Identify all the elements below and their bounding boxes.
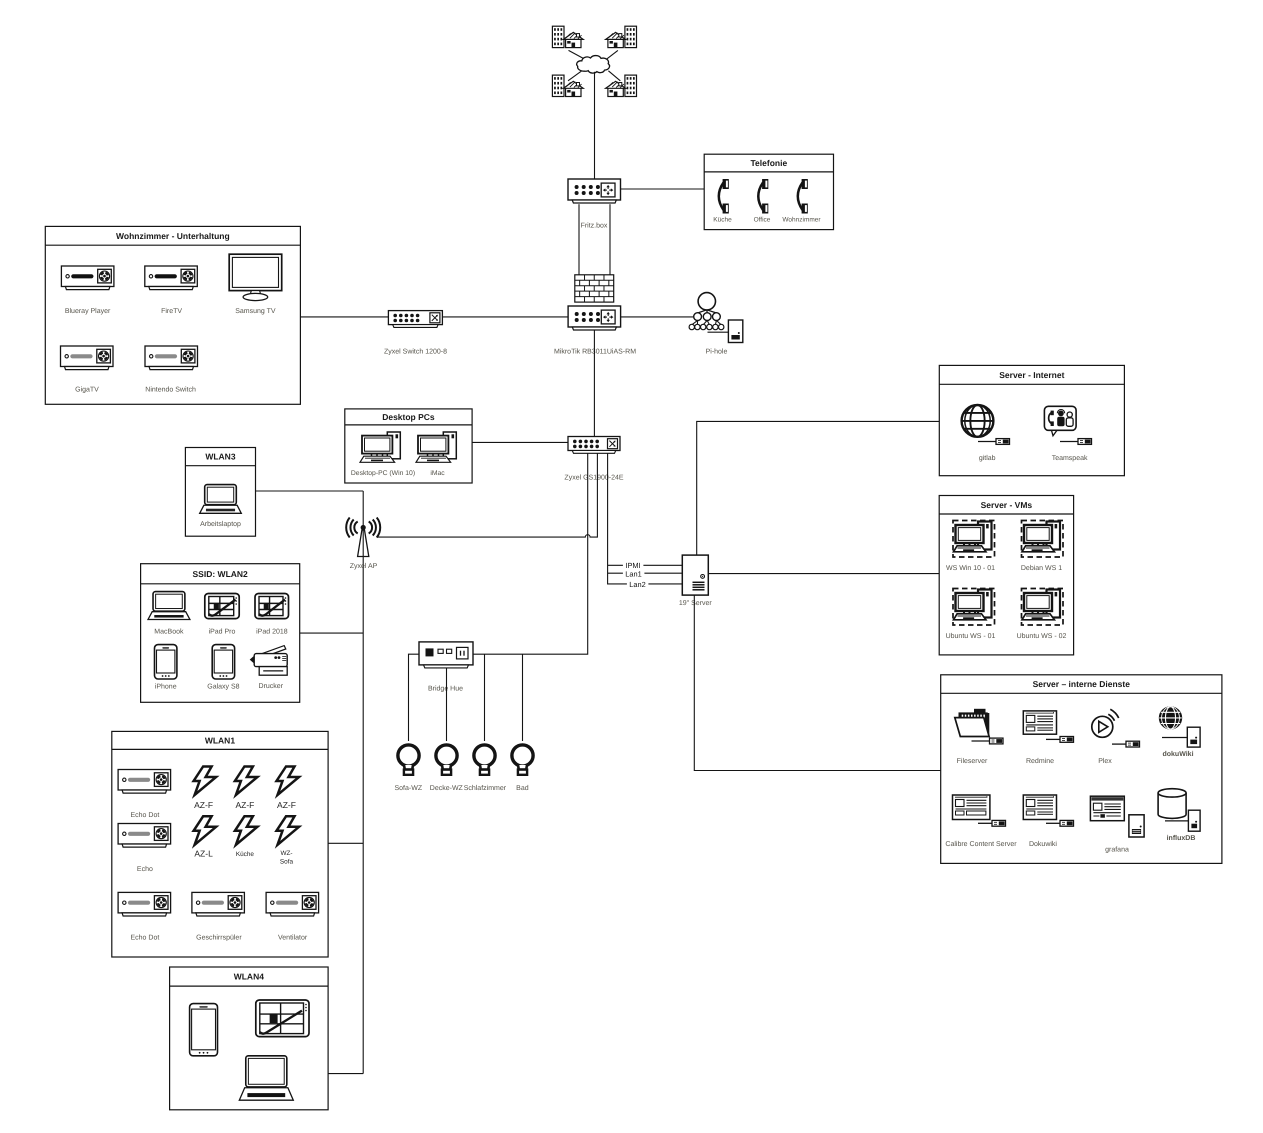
device Echo Dot lower xyxy=(118,892,171,916)
laptop MacBook xyxy=(148,592,190,620)
wire GS1900 to server trunk xyxy=(608,453,683,584)
svg-text:MacBook: MacBook xyxy=(154,628,184,636)
svg-text:Nintendo Switch: Nintendo Switch xyxy=(145,386,196,394)
group box Desktop PCs xyxy=(345,409,472,483)
svg-text:Dokuwiki: Dokuwiki xyxy=(1029,840,1057,848)
wire AP trunk down WLAN boxes xyxy=(362,491,364,1074)
svg-text:Blueray Player: Blueray Player xyxy=(65,307,111,315)
svg-text:Schlafzimmer: Schlafzimmer xyxy=(464,784,507,792)
wire cloud to bottom-right city xyxy=(608,71,620,81)
svg-text:Zyxel Switch 1200-8: Zyxel Switch 1200-8 xyxy=(384,348,447,356)
svg-text:Server - VMs: Server - VMs xyxy=(981,500,1033,510)
device Echo xyxy=(118,824,171,848)
svg-text:Bridge Hue: Bridge Hue xyxy=(428,685,463,693)
wire Desktop PCs to GS1900 xyxy=(472,441,568,443)
server 19 inch xyxy=(682,555,708,595)
tablet iPad 2018 xyxy=(255,594,289,619)
service Teamspeak bubble xyxy=(1044,406,1076,436)
phone Office xyxy=(758,179,768,214)
bulb Decke-WZ xyxy=(436,745,457,775)
group box Server - Internet xyxy=(939,365,1124,475)
svg-text:Office: Office xyxy=(754,217,771,224)
device Pi-hole board xyxy=(728,320,742,343)
svg-text:WLAN3: WLAN3 xyxy=(205,452,235,462)
service gitlab connector xyxy=(978,439,1010,445)
label IPMI xyxy=(623,561,644,570)
smart plug AZ-F 3 xyxy=(277,767,300,796)
svg-text:Telefonie: Telefonie xyxy=(751,158,788,168)
svg-text:Lan2: Lan2 xyxy=(629,580,645,589)
smartphone WLAN4 xyxy=(190,1004,218,1056)
svg-text:AZ-L: AZ-L xyxy=(194,849,213,859)
svg-text:Server - Internet: Server - Internet xyxy=(999,370,1064,380)
wire trunk to WLAN4 xyxy=(328,1073,363,1075)
svg-text:Küche: Küche xyxy=(236,851,255,858)
service Plex xyxy=(1092,709,1119,737)
service gitlab globe xyxy=(962,405,994,437)
svg-text:gitlab: gitlab xyxy=(979,454,996,462)
wire cloud to Fritz.box xyxy=(594,72,596,179)
service Redmine connector xyxy=(1046,737,1074,743)
svg-text:Pi-hole: Pi-hole xyxy=(706,348,728,356)
svg-text:Geschirrspüler: Geschirrspüler xyxy=(196,934,242,942)
wire to Bad bulb xyxy=(522,654,524,741)
svg-text:Galaxy S8: Galaxy S8 xyxy=(207,682,239,690)
svg-text:WLAN1: WLAN1 xyxy=(205,735,235,745)
internet city block top-left xyxy=(552,26,583,47)
computer Desktop-PC (Win 10) xyxy=(360,432,400,462)
smartphone Galaxy S8 xyxy=(212,645,234,679)
computer iMac xyxy=(416,432,456,462)
svg-text:Echo: Echo xyxy=(137,865,153,873)
device Echo Dot upper xyxy=(118,770,171,794)
wire cloud to bottom-left city xyxy=(568,71,582,81)
svg-text:Wohnzimmer - Unterhaltung: Wohnzimmer - Unterhaltung xyxy=(116,231,230,241)
service Dokuwiki page xyxy=(1023,795,1056,820)
svg-text:Plex: Plex xyxy=(1098,757,1112,765)
wire server to Server - interne Dienste xyxy=(694,595,940,770)
wire trunk to WLAN1 xyxy=(328,842,363,844)
label Lan1 xyxy=(623,569,645,578)
group box WLAN1 xyxy=(112,731,328,957)
service Redmine page xyxy=(1023,711,1056,734)
service Teamspeak connector xyxy=(1060,439,1092,445)
device FireTV xyxy=(145,266,198,290)
switch Zyxel GS1900-24E xyxy=(568,437,620,454)
svg-text:Debian WS 1: Debian WS 1 xyxy=(1021,564,1062,572)
svg-text:Redmine: Redmine xyxy=(1026,757,1054,765)
service Fileserver folder xyxy=(955,709,990,737)
svg-text:Ventilator: Ventilator xyxy=(278,934,308,942)
group box Telefonie xyxy=(704,154,833,229)
service Fileserver connector xyxy=(972,738,1004,744)
tablet iPad Pro xyxy=(205,594,239,619)
svg-text:SSID: WLAN2: SSID: WLAN2 xyxy=(193,569,249,579)
svg-text:WLAN4: WLAN4 xyxy=(234,972,264,982)
bulb Sofa-WZ xyxy=(398,745,419,775)
label Lan2 xyxy=(627,580,649,589)
vm Ubuntu WS - 01 xyxy=(953,589,995,626)
svg-text:Lan1: Lan1 xyxy=(625,569,641,578)
svg-text:iPad 2018: iPad 2018 xyxy=(256,628,288,636)
wire influxDB to tag xyxy=(1165,820,1188,822)
bulb Schlafzimmer xyxy=(474,745,495,775)
device dokuWiki tag xyxy=(1187,727,1200,747)
svg-text:Echo Dot: Echo Dot xyxy=(131,811,160,819)
vm WS Win 10 - 01 xyxy=(953,521,995,558)
wire Bridge Hue left to Sofa-WZ bulb xyxy=(409,654,420,741)
wire MikroTik to Zyxel Switch 1200-8 xyxy=(442,316,568,318)
svg-text:WS Win 10 - 01: WS Win 10 - 01 xyxy=(946,564,995,572)
group box Server - VMs xyxy=(939,496,1073,655)
access point Zyxel AP xyxy=(346,518,380,557)
service grafana tower xyxy=(1129,815,1144,837)
svg-text:Arbeitslaptop: Arbeitslaptop xyxy=(200,520,241,528)
service Dokuwiki connector xyxy=(1046,820,1074,826)
device Blueray Player xyxy=(61,266,114,290)
svg-text:Samsung TV: Samsung TV xyxy=(235,308,276,315)
wire dokuWiki to tag xyxy=(1162,737,1187,739)
printer Drucker xyxy=(250,646,288,676)
internet city block top-right xyxy=(606,26,637,47)
svg-text:AZ-F: AZ-F xyxy=(235,800,254,810)
device Geschirrspueler xyxy=(192,892,245,916)
svg-text:Fritz.box: Fritz.box xyxy=(581,222,608,230)
bulb Bad xyxy=(512,745,533,775)
service influxDB cylinder xyxy=(1158,789,1186,819)
group box Wohnzimmer - Unterhaltung xyxy=(45,226,300,404)
wire GS1900 to Zyxel AP xyxy=(378,453,598,537)
device GigaTV xyxy=(61,346,114,370)
device Ventilator xyxy=(266,892,319,916)
wire Lan1 xyxy=(608,572,683,574)
device Pi-hole raspberry xyxy=(689,293,724,330)
svg-text:Zyxel AP: Zyxel AP xyxy=(350,562,378,570)
svg-text:iPad Pro: iPad Pro xyxy=(209,628,236,636)
device influxDB tag xyxy=(1188,810,1200,831)
laptop WLAN4 xyxy=(239,1056,293,1100)
internet city block bottom-left xyxy=(552,75,583,96)
svg-text:Bad: Bad xyxy=(516,784,529,792)
wire MikroTik to Zyxel GS1900-24E xyxy=(593,330,595,436)
svg-text:Küche: Küche xyxy=(713,217,732,224)
wire GS1900 to Bridge Hue trunk xyxy=(473,453,588,654)
phone Kueche xyxy=(719,179,729,214)
smart plug Kueche xyxy=(235,816,258,845)
svg-text:Echo Dot: Echo Dot xyxy=(131,934,160,942)
wire Pi-hole to pi device xyxy=(708,331,729,333)
wire Fritz.box to firewall left xyxy=(578,204,580,275)
smart plug AZ-L xyxy=(194,816,217,845)
wire MikroTik to Pi-hole xyxy=(621,316,694,318)
smart plug AZ-F 2 xyxy=(235,767,258,796)
wire IPMI xyxy=(608,564,683,566)
svg-text:WZ-: WZ- xyxy=(280,850,292,857)
service Plex connector xyxy=(1112,741,1140,747)
device Samsung TV xyxy=(229,254,282,300)
router Fritz.box xyxy=(568,179,621,203)
wire cloud to top-left city xyxy=(569,50,586,59)
router MikroTik RB3011UiAS-RM xyxy=(568,306,621,330)
internet cloud xyxy=(577,56,610,74)
svg-text:Teamspeak: Teamspeak xyxy=(1052,454,1088,462)
device Bridge Hue xyxy=(419,642,473,668)
tablet WLAN4 xyxy=(256,1000,309,1037)
svg-text:AZ-F: AZ-F xyxy=(277,800,296,810)
wire cloud to top-right city xyxy=(607,50,618,59)
smart plug WZ-Sofa xyxy=(277,816,300,845)
svg-text:Desktop-PC (Win 10): Desktop-PC (Win 10) xyxy=(351,470,415,477)
svg-text:Drucker: Drucker xyxy=(259,682,284,690)
svg-text:GigaTV: GigaTV xyxy=(75,386,99,394)
svg-text:AZ-F: AZ-F xyxy=(194,800,213,810)
group box WLAN3 xyxy=(185,448,255,537)
svg-text:Sofa: Sofa xyxy=(280,858,294,865)
svg-text:Wohnzimmer: Wohnzimmer xyxy=(782,217,821,224)
smartphone iPhone xyxy=(155,645,177,679)
svg-text:19" Server: 19" Server xyxy=(679,600,713,607)
svg-text:Sofa-WZ: Sofa-WZ xyxy=(394,784,422,792)
group box WLAN4 xyxy=(170,967,329,1110)
svg-text:influxDB: influxDB xyxy=(1167,834,1196,842)
internet city block bottom-right xyxy=(606,75,637,96)
svg-text:Ubuntu WS - 01: Ubuntu WS - 01 xyxy=(946,632,996,640)
svg-text:Desktop PCs: Desktop PCs xyxy=(382,412,435,422)
wire Bridge Hue bottom to Decke-WZ bulb xyxy=(446,668,448,741)
phone Wohnzimmer xyxy=(798,179,808,214)
laptop Arbeitslaptop xyxy=(200,485,242,514)
wire trunk to SSID WLAN2 xyxy=(300,632,364,634)
wire to Schlafzimmer bulb xyxy=(484,654,486,741)
group box SSID: WLAN2 xyxy=(141,564,300,703)
svg-text:iMac: iMac xyxy=(430,470,445,477)
switch Zyxel Switch 1200-8 xyxy=(388,311,442,328)
svg-text:FireTV: FireTV xyxy=(161,307,182,315)
wire Zyxel Switch to Wohnzimmer box xyxy=(300,316,388,318)
wire WLAN3 to Zyxel AP xyxy=(256,490,364,492)
svg-text:iPhone: iPhone xyxy=(155,682,177,690)
svg-text:Fileserver: Fileserver xyxy=(957,757,988,765)
service Calibre connector xyxy=(978,820,1006,826)
vm Debian WS 1 xyxy=(1022,521,1064,558)
vm Ubuntu WS - 02 xyxy=(1022,589,1064,626)
group box Server - interne Dienste xyxy=(941,675,1222,864)
svg-text:Zyxel GS1900-24E: Zyxel GS1900-24E xyxy=(564,474,623,482)
svg-text:dokuWiki: dokuWiki xyxy=(1162,750,1193,758)
service Calibre page xyxy=(953,795,990,820)
wire server to Server - VMs xyxy=(708,573,939,575)
svg-text:Ubuntu WS - 02: Ubuntu WS - 02 xyxy=(1017,632,1067,640)
svg-text:Calibre Content Server: Calibre Content Server xyxy=(945,840,1017,848)
smart plug AZ-F 1 xyxy=(194,767,217,796)
svg-text:MikroTik RB3011UiAS-RM: MikroTik RB3011UiAS-RM xyxy=(554,348,636,356)
device Nintendo Switch xyxy=(145,346,198,370)
wire server to Server - Internet xyxy=(697,421,940,555)
firewall xyxy=(575,275,614,302)
service grafana page xyxy=(1090,796,1124,821)
svg-text:grafana: grafana xyxy=(1105,846,1129,854)
wire Fritz.box to Telefonie xyxy=(621,188,705,190)
service dokuWiki globe xyxy=(1159,707,1181,729)
svg-text:Server – interne Dienste: Server – interne Dienste xyxy=(1033,679,1131,689)
wire Fritz.box to firewall right xyxy=(609,204,611,275)
svg-text:Decke-WZ: Decke-WZ xyxy=(430,784,464,792)
